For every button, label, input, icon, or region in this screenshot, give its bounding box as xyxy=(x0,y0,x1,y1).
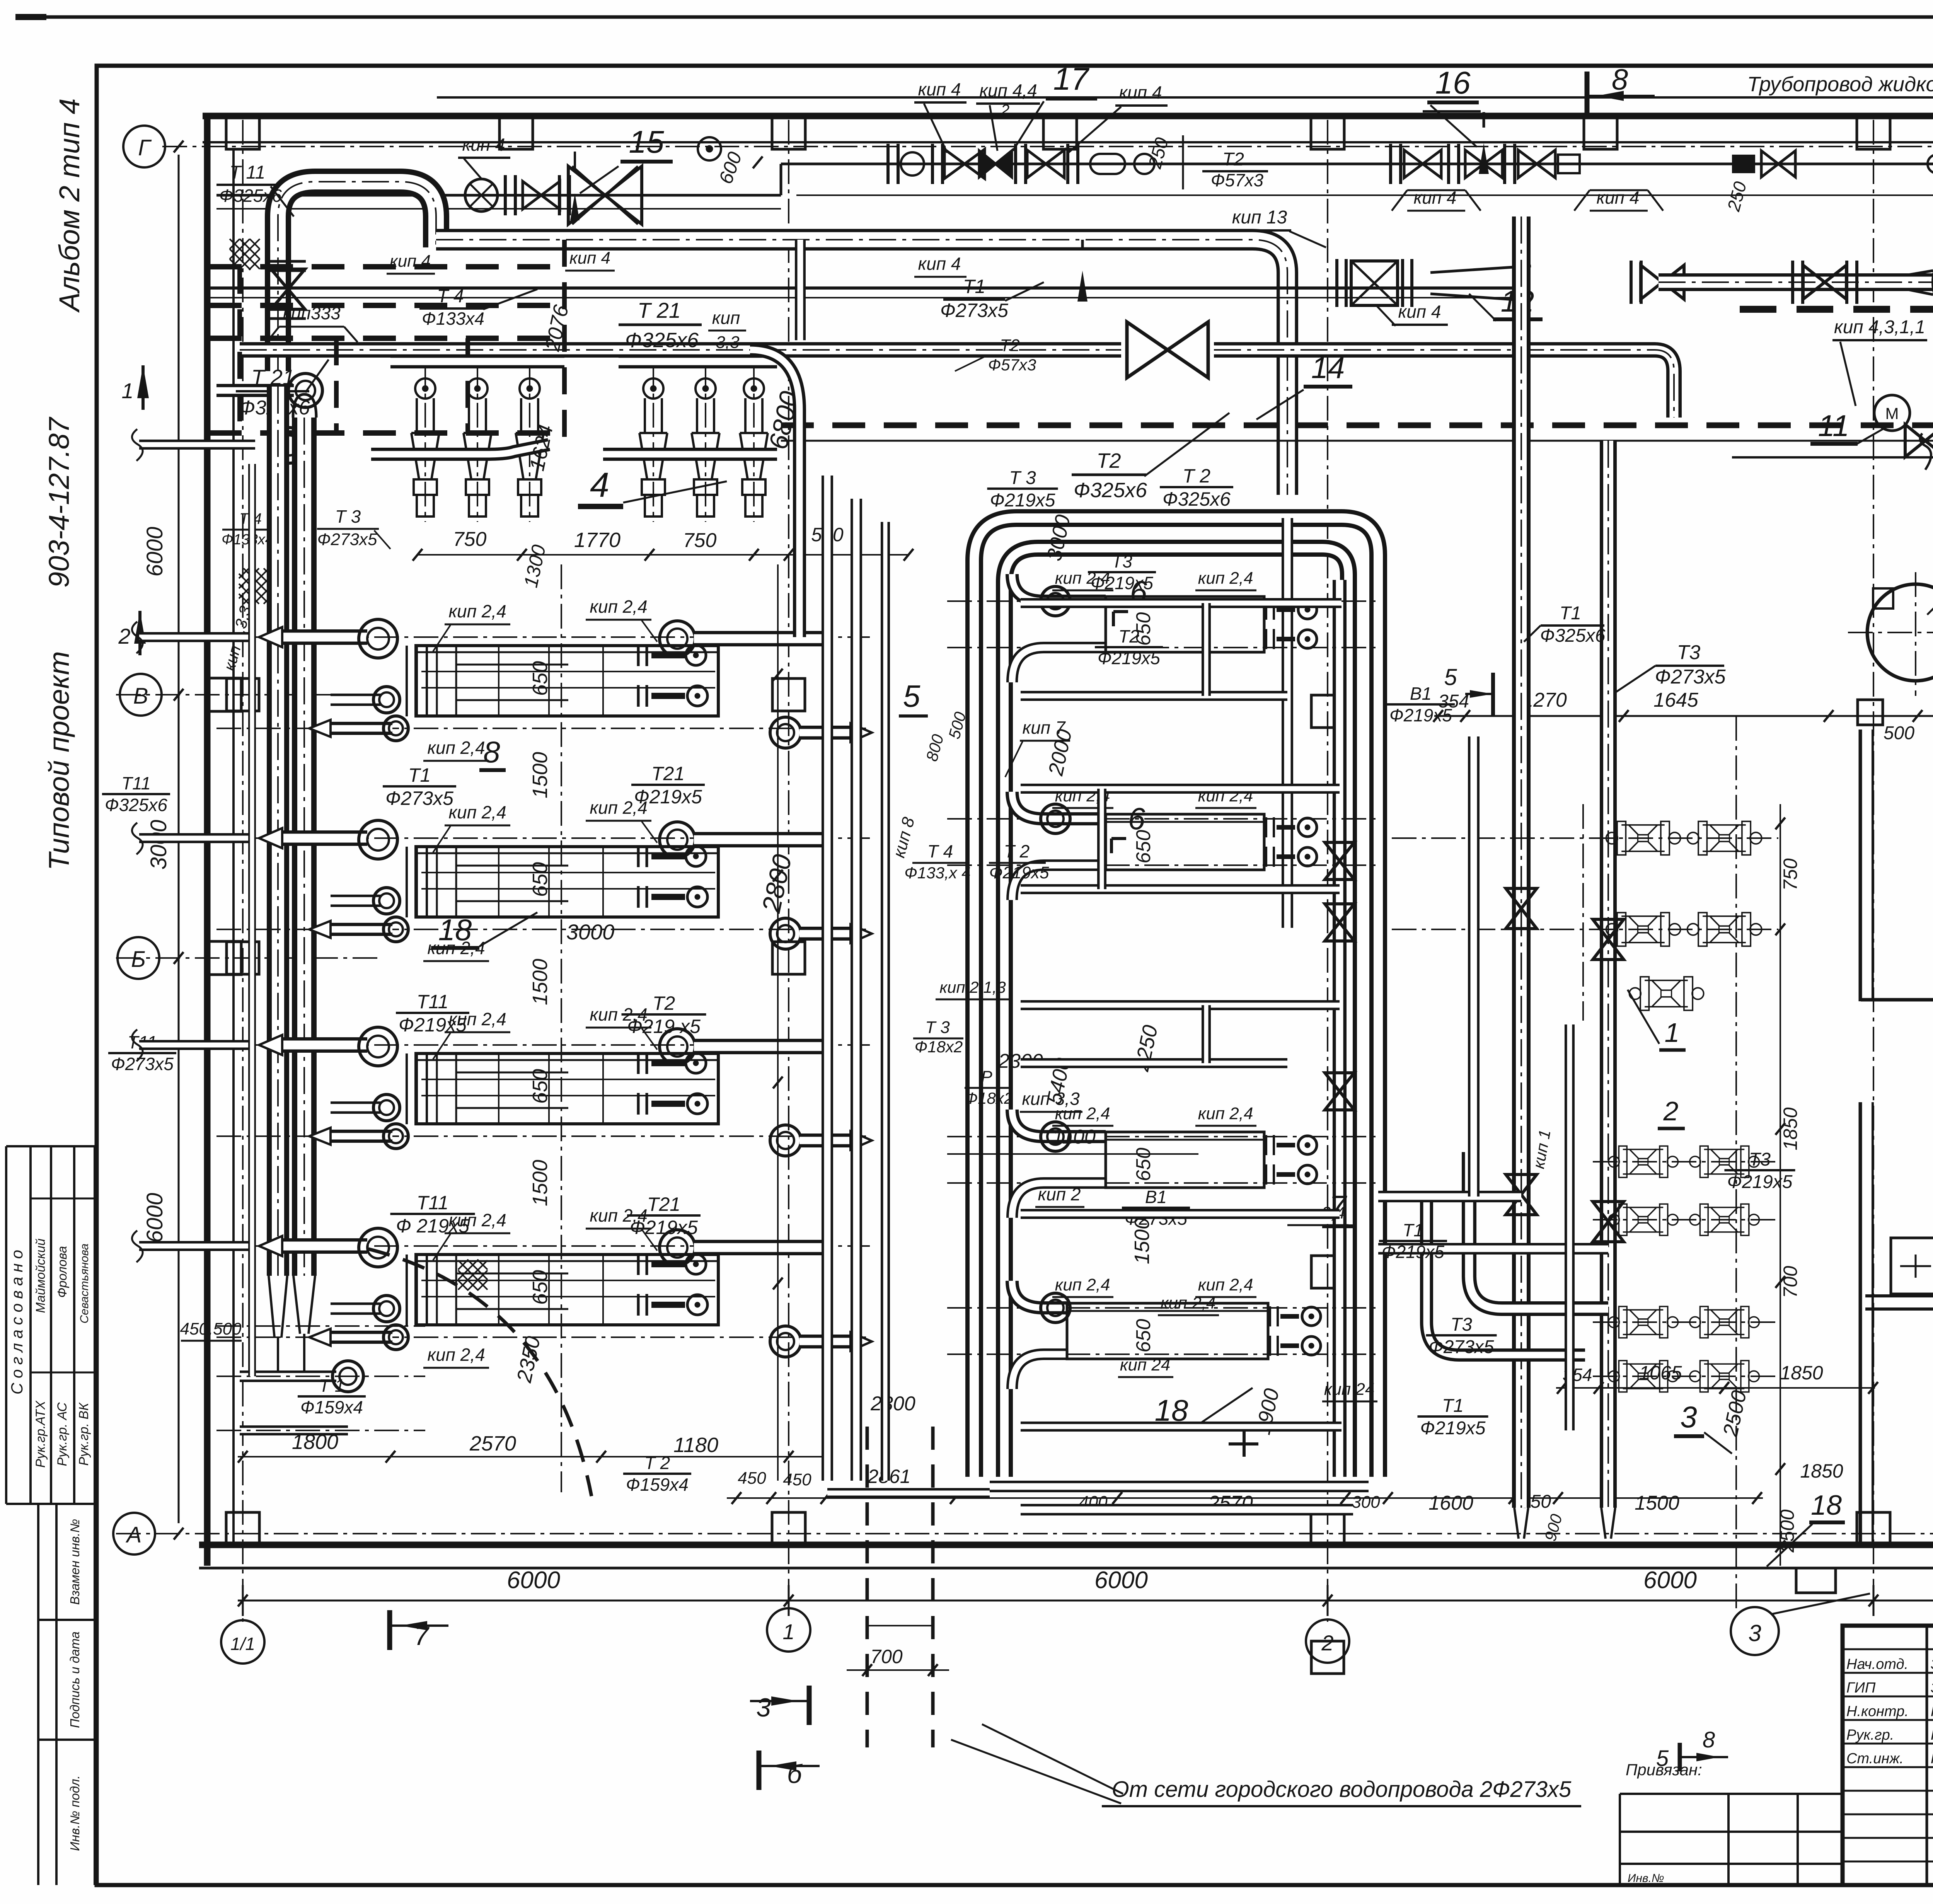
axis circle 1 xyxy=(767,1608,810,1652)
svg-text:4: 4 xyxy=(590,466,609,505)
svg-text:Ф219х5: Ф219х5 xyxy=(1727,1172,1793,1192)
svg-text:Ф219х5: Ф219х5 xyxy=(1389,705,1452,725)
svg-text:Ф273х5: Ф273х5 xyxy=(1429,1337,1494,1357)
run E main right y730 xyxy=(1659,273,1933,291)
svg-text:Ф219х5: Ф219х5 xyxy=(1098,648,1160,668)
svg-text:кип 4: кип 4 xyxy=(1398,302,1441,322)
left elbow donut xyxy=(271,428,307,463)
svg-text:Т3: Т3 xyxy=(1451,1314,1472,1335)
pump unit at 4250,2404 xyxy=(1606,913,1681,946)
svg-text:Ф219х5: Ф219х5 xyxy=(1420,1418,1486,1439)
svg-text:1770: 1770 xyxy=(574,528,620,552)
pump unit at 4310,2570 xyxy=(1630,977,1704,1011)
svg-text:700: 700 xyxy=(870,1646,903,1667)
svg-text:Гринберг: Гринберг xyxy=(1931,1751,1933,1767)
svg-text:Золотов: Золотов xyxy=(1931,1680,1933,1696)
bottom wall columns xyxy=(226,1512,259,1546)
bank dim row xyxy=(418,554,909,556)
svg-text:Фролова: Фролова xyxy=(55,1246,69,1298)
svg-text:Т11: Т11 xyxy=(417,1192,448,1214)
dashed cluster top-left xyxy=(209,264,564,269)
section b bottom xyxy=(757,1751,762,1790)
elbow pipes right-center xyxy=(1469,1152,1608,1309)
svg-text:650: 650 xyxy=(528,661,552,696)
dim row 1800 2570 1180 xyxy=(238,1456,823,1457)
svg-text:Т 1: Т 1 xyxy=(319,1376,344,1396)
svg-text:1: 1 xyxy=(1665,1018,1680,1048)
svg-text:Трубопровод жидкого стекла: Трубопровод жидкого стекла xyxy=(1747,73,1933,96)
dashed T2 run right y800 xyxy=(1740,306,1933,313)
bottoms taper xyxy=(269,1276,315,1376)
axis circle B xyxy=(118,937,159,979)
svg-text:7: 7 xyxy=(414,1621,430,1651)
svg-text:Ф219х5: Ф219х5 xyxy=(630,1217,698,1238)
axis circle 3 xyxy=(1731,1607,1779,1655)
svg-text:Т 11: Т 11 xyxy=(230,162,265,183)
svg-text:ГИП: ГИП xyxy=(1846,1680,1876,1696)
svg-text:Ф273х5: Ф273х5 xyxy=(385,788,453,809)
svg-text:Ст.инж.: Ст.инж. xyxy=(1846,1751,1904,1767)
svg-text:кип 7: кип 7 xyxy=(1023,718,1066,738)
svg-text:Т 4: Т 4 xyxy=(927,841,953,861)
left wall stubs upper xyxy=(216,384,294,397)
svg-text:2: 2 xyxy=(1001,102,1009,119)
extra central vertical pipe xyxy=(881,522,890,1481)
svg-text:1800: 1800 xyxy=(292,1430,338,1454)
top cluster right-mid xyxy=(1391,144,1401,184)
svg-text:2: 2 xyxy=(1321,1631,1333,1655)
svg-text:903-4-127.87: 903-4-127.87 xyxy=(43,416,75,588)
svg-text:450: 450 xyxy=(783,1470,811,1489)
svg-text:3: 3 xyxy=(1680,1400,1697,1434)
svg-text:кип 2,4: кип 2,4 xyxy=(427,1345,485,1365)
svg-text:Ф219х5: Ф219х5 xyxy=(399,1014,467,1036)
top mid valve cluster xyxy=(888,144,898,184)
svg-text:Ф325х6: Ф325х6 xyxy=(105,795,167,815)
svg-text:5: 5 xyxy=(903,679,920,713)
svg-text:кип: кип xyxy=(712,308,740,328)
pump unit at 4250,3155 xyxy=(1609,1204,1678,1235)
see sheet TX-11 note xyxy=(1732,456,1933,459)
svg-text:Т1: Т1 xyxy=(1442,1396,1464,1416)
svg-text:1850: 1850 xyxy=(1800,1460,1843,1482)
pump unit at 4460,2404 xyxy=(1688,913,1762,946)
svg-text:Б: Б xyxy=(131,947,146,972)
top thin pipe left part xyxy=(216,194,781,197)
svg-text:Рук.гр.: Рук.гр. xyxy=(1846,1727,1894,1743)
svg-text:кип 2,4: кип 2,4 xyxy=(1161,1294,1216,1313)
svg-text:Т 21: Т 21 xyxy=(251,365,295,389)
through-wall stub pipes with break marks xyxy=(139,440,255,450)
svg-text:Т1: Т1 xyxy=(408,764,431,786)
svg-text:Ф219х5: Ф219х5 xyxy=(1091,573,1153,593)
top cap V2 xyxy=(293,394,316,418)
svg-text:Ф219х5: Ф219х5 xyxy=(634,786,702,808)
svg-text:3: 3 xyxy=(1748,1620,1761,1646)
svg-text:2300: 2300 xyxy=(870,1393,915,1415)
heater unit at x=1235 xyxy=(477,363,478,522)
water inlet dashed pipes xyxy=(866,1427,869,1747)
svg-text:кип 2,4: кип 2,4 xyxy=(448,802,506,822)
svg-text:кип 24: кип 24 xyxy=(1120,1355,1171,1374)
svg-text:Т3: Т3 xyxy=(1111,551,1132,571)
svg-text:Закоревский: Закоревский xyxy=(1931,1656,1933,1672)
axis circle 2 xyxy=(1306,1619,1349,1663)
svg-text:кип 2: кип 2 xyxy=(1038,1184,1081,1204)
section 7 bottom xyxy=(387,1610,392,1650)
svg-text:Типовой проект: Типовой проект xyxy=(43,651,75,870)
svg-text:300: 300 xyxy=(1352,1493,1380,1512)
svg-text:Т 3: Т 3 xyxy=(925,1018,950,1037)
building bottom wall xyxy=(199,1542,1933,1548)
extra dashed lines top-left cluster xyxy=(209,303,564,308)
pump unit at 4250,3005 xyxy=(1609,1146,1678,1177)
axis lines horizontal xyxy=(162,146,1933,147)
svg-text:Т 3: Т 3 xyxy=(1009,468,1036,488)
heater unit at x=1370 xyxy=(529,363,530,522)
svg-text:Т 3: Т 3 xyxy=(335,506,361,527)
interior columns xyxy=(227,678,259,711)
svg-text:Т2: Т2 xyxy=(1222,149,1244,170)
svg-text:750: 750 xyxy=(683,529,717,552)
pump unit at 4460,3005 xyxy=(1690,1146,1759,1177)
big valve on C xyxy=(1127,322,1208,378)
pump unit at 4460,3155 xyxy=(1690,1204,1759,1235)
svg-text:кип 4: кип 4 xyxy=(918,254,961,274)
svg-text:Ф273х5: Ф273х5 xyxy=(1655,666,1726,688)
heater unit at x=1950 xyxy=(753,363,755,522)
svg-text:Ф133х4: Ф133х4 xyxy=(422,309,484,329)
svg-text:кип 4: кип 4 xyxy=(569,249,610,268)
svg-text:650: 650 xyxy=(1132,1319,1155,1353)
main run T21 top-left fat U xyxy=(278,182,436,371)
hatch patches xyxy=(230,239,260,270)
svg-text:кип 2,1,3: кип 2,1,3 xyxy=(939,978,1006,996)
svg-text:Нач.отд.: Нач.отд. xyxy=(1846,1656,1908,1672)
bottom wall notch xyxy=(1796,1568,1836,1593)
svg-text:Взамен инв.№: Взамен инв.№ xyxy=(68,1519,82,1605)
svg-text:М: М xyxy=(1885,404,1899,423)
svg-text:Ф325х6: Ф325х6 xyxy=(1074,479,1147,502)
pump unit at 4460,2168 xyxy=(1688,822,1762,855)
svg-text:кип 4: кип 4 xyxy=(462,135,505,155)
pump unit at 4250,3420 xyxy=(1609,1306,1678,1338)
loop inner vertical connectors xyxy=(1202,603,1211,696)
svg-text:6000: 6000 xyxy=(1643,1567,1697,1594)
dim line 2000 row xyxy=(1434,715,1933,717)
svg-text:Ф133х4: Ф133х4 xyxy=(222,532,273,548)
svg-text:В: В xyxy=(133,684,148,709)
svg-text:650: 650 xyxy=(528,1069,552,1104)
svg-text:3000: 3000 xyxy=(146,820,171,869)
svg-text:6000: 6000 xyxy=(142,1193,167,1243)
top thin pipe main xyxy=(781,163,1933,165)
svg-text:Т 2: Т 2 xyxy=(644,1453,670,1473)
cabinet small xyxy=(1891,1238,1933,1294)
thin wall-side vertical pipe xyxy=(248,464,256,1376)
svg-text:Ф133,х 4: Ф133,х 4 xyxy=(904,864,970,882)
center exchanger row y=1615 xyxy=(947,600,1376,602)
svg-text:Рук.гр. ВК: Рук.гр. ВК xyxy=(77,1402,91,1466)
svg-text:18: 18 xyxy=(438,913,472,947)
dim row 450 450 2861 ... xyxy=(727,1497,1763,1499)
svg-text:2: 2 xyxy=(1663,1096,1679,1126)
pump unit at 4460,3420 xyxy=(1690,1306,1759,1338)
left margin inventory table xyxy=(38,1504,95,1885)
heat exchanger row at y=2265 xyxy=(216,837,870,839)
lower-left small pipes xyxy=(240,1370,336,1382)
svg-text:1180: 1180 xyxy=(673,1434,718,1457)
heat exchanger row at y=1745 xyxy=(216,636,870,638)
svg-text:Севастьянова: Севастьянова xyxy=(78,1244,91,1324)
pump feed vertical xyxy=(1565,1024,1575,1430)
svg-text:1600: 1600 xyxy=(1428,1492,1473,1514)
svg-text:Т11: Т11 xyxy=(417,991,448,1013)
bank manifold pipes xyxy=(390,355,564,368)
vertical dims right of pumps xyxy=(1780,804,1781,1566)
svg-text:Р: Р xyxy=(981,1067,992,1086)
svg-text:11: 11 xyxy=(1818,409,1849,443)
svg-text:17: 17 xyxy=(1053,61,1090,97)
svg-text:Т1: Т1 xyxy=(1403,1220,1423,1240)
center exchanger row y=3000 xyxy=(947,1136,1376,1137)
building top wall xyxy=(203,113,1933,119)
svg-text:кип 2,4: кип 2,4 xyxy=(427,738,485,758)
svg-text:Коростылёва: Коростылёва xyxy=(1931,1703,1933,1720)
svg-text:Т2: Т2 xyxy=(653,992,675,1014)
svg-text:1100: 1100 xyxy=(1052,1126,1096,1148)
svg-text:Т1: Т1 xyxy=(963,276,985,297)
svg-text:кип 3,3: кип 3,3 xyxy=(1022,1089,1080,1109)
svg-text:кип 4: кип 4 xyxy=(1119,82,1162,102)
svg-text:650: 650 xyxy=(528,862,552,897)
svg-text:Ф18х2: Ф18х2 xyxy=(915,1038,963,1056)
stair wall below xyxy=(1861,998,1933,1002)
svg-text:Г: Г xyxy=(138,135,152,160)
section 3 bottom xyxy=(807,1686,812,1725)
svg-text:6000: 6000 xyxy=(142,527,167,576)
building left wall xyxy=(204,116,211,1566)
svg-text:1500: 1500 xyxy=(528,1160,552,1206)
axis circle V xyxy=(120,674,162,716)
svg-text:Т21: Т21 xyxy=(647,1193,680,1215)
heater unit at x=1690 xyxy=(653,363,654,522)
svg-text:450,500: 450,500 xyxy=(180,1319,242,1338)
svg-text:5: 5 xyxy=(1656,1746,1669,1771)
top wall columns xyxy=(226,117,259,149)
svg-text:Ф325х6: Ф325х6 xyxy=(1163,488,1231,510)
pump unit at 4250,3560 xyxy=(1609,1360,1678,1392)
svg-text:Т11: Т11 xyxy=(121,773,151,793)
top pipe second line xyxy=(796,194,1933,196)
svg-text:кип 2,4: кип 2,4 xyxy=(1198,569,1253,588)
svg-text:Н.контр.: Н.контр. xyxy=(1846,1703,1909,1720)
top-left valve cluster xyxy=(465,179,498,211)
run D dashed y1100 xyxy=(781,423,1933,428)
bottom dimension line xyxy=(238,1600,1933,1602)
svg-text:1500: 1500 xyxy=(1635,1492,1679,1514)
pump unit at 4460,3560 xyxy=(1690,1360,1759,1392)
central loop outer xyxy=(974,518,1378,1477)
big dashed arc xyxy=(367,1249,591,1496)
svg-text:А: А xyxy=(126,1522,142,1548)
svg-text:Подпись и дата: Подпись и дата xyxy=(68,1631,82,1728)
heat exchanger row at y=3320 xyxy=(216,1245,870,1247)
heat exchanger row at y=2800 xyxy=(216,1044,870,1046)
svg-text:16: 16 xyxy=(1435,65,1471,101)
svg-text:750: 750 xyxy=(453,528,487,551)
svg-text:3000: 3000 xyxy=(566,920,615,944)
svg-text:Инв.№: Инв.№ xyxy=(1628,1872,1664,1885)
valves on run E xyxy=(1803,265,1846,299)
svg-text:Альбом 2 тип 4: Альбом 2 тип 4 xyxy=(53,98,85,313)
svg-text:1: 1 xyxy=(782,1619,794,1644)
svg-text:450: 450 xyxy=(738,1469,766,1488)
svg-text:б: б xyxy=(787,1759,803,1789)
svg-text:8: 8 xyxy=(1703,1727,1715,1752)
wall below stairs xyxy=(1859,730,1862,1001)
svg-text:Ф57х3: Ф57х3 xyxy=(1211,170,1264,190)
center exchanger row y=2178 xyxy=(947,818,1376,820)
loop bottom headers xyxy=(990,1481,1369,1492)
svg-text:Ф159х4: Ф159х4 xyxy=(626,1474,689,1495)
svg-text:Т 2: Т 2 xyxy=(1183,465,1210,487)
svg-text:Т2: Т2 xyxy=(1096,449,1121,472)
svg-text:1500: 1500 xyxy=(528,752,552,798)
svg-text:Маймойский: Маймойский xyxy=(33,1239,48,1313)
svg-text:Ф273х5: Ф273х5 xyxy=(111,1054,174,1074)
svg-text:кип 4,3,1,1: кип 4,3,1,1 xyxy=(1834,317,1925,338)
svg-text:750: 750 xyxy=(1780,858,1801,891)
main run A y620 xyxy=(436,240,1287,495)
svg-text:1850: 1850 xyxy=(1780,1362,1823,1384)
section mark 2 left xyxy=(134,611,146,644)
svg-text:6000: 6000 xyxy=(507,1567,560,1594)
svg-text:700: 700 xyxy=(1780,1266,1801,1298)
axis lines vertical xyxy=(242,120,244,1622)
svg-text:8: 8 xyxy=(483,735,500,769)
svg-text:1: 1 xyxy=(121,378,133,403)
coupling 12 xyxy=(1351,261,1398,305)
svg-text:14: 14 xyxy=(1311,351,1345,385)
svg-text:6: 6 xyxy=(1128,801,1145,836)
svg-text:Т2: Т2 xyxy=(1118,626,1139,646)
taper on run E left xyxy=(1430,266,1531,301)
central loop inner xyxy=(1004,548,1348,1477)
svg-text:Ф159х4: Ф159х4 xyxy=(300,1397,363,1417)
svg-text:Ф273х5: Ф273х5 xyxy=(317,530,377,549)
left big vertical pipes xyxy=(267,387,289,1276)
svg-text:кип 2,4: кип 2,4 xyxy=(1198,1104,1253,1123)
svg-text:2: 2 xyxy=(118,624,130,648)
run B thin y745 xyxy=(209,286,1521,290)
svg-text:Ф325х6: Ф325х6 xyxy=(625,329,699,352)
approval table (Soglasovano) xyxy=(6,1146,95,1504)
svg-text:кип 2,4: кип 2,4 xyxy=(448,601,506,621)
svg-text:кип 24: кип 24 xyxy=(1324,1380,1375,1399)
run C y905 xyxy=(240,342,1121,358)
elektroshchitovaya room xyxy=(1859,1102,1862,1545)
svg-text:1645: 1645 xyxy=(1653,689,1699,711)
sheet top trim line xyxy=(15,15,1933,19)
heater unit at x=1100 xyxy=(424,363,426,522)
svg-text:500: 500 xyxy=(1884,723,1914,743)
heater unit at x=1825 xyxy=(705,363,706,522)
svg-text:Ф219х5: Ф219х5 xyxy=(1382,1242,1444,1262)
pump unit at 4250,2168 xyxy=(1606,822,1681,855)
right columns verticals xyxy=(1512,216,1531,1508)
svg-text:650: 650 xyxy=(528,1270,552,1305)
svg-text:Т2: Т2 xyxy=(1000,336,1019,355)
svg-text:Т 2: Т 2 xyxy=(1004,841,1030,861)
svg-text:1850: 1850 xyxy=(1780,1107,1801,1150)
svg-text:кип 2,4: кип 2,4 xyxy=(590,597,647,617)
svg-text:Т1: Т1 xyxy=(1560,603,1581,624)
svg-text:Инв.№ подл.: Инв.№ подл. xyxy=(68,1775,82,1851)
svg-text:8: 8 xyxy=(1612,63,1628,96)
svg-text:18: 18 xyxy=(1811,1490,1842,1521)
svg-text:Коростылёва: Коростылёва xyxy=(1931,1727,1933,1743)
svg-text:Т21: Т21 xyxy=(651,763,685,784)
svg-text:Ф219х5: Ф219х5 xyxy=(989,863,1049,882)
svg-text:Т3: Т3 xyxy=(1677,641,1701,664)
svg-text:5: 5 xyxy=(1444,664,1457,690)
valve on left vertical xyxy=(271,269,305,309)
svg-text:1500: 1500 xyxy=(528,959,552,1005)
central vertical pipes x2140 x2215 xyxy=(822,476,833,1481)
svg-text:Ф 219х5: Ф 219х5 xyxy=(396,1215,469,1237)
svg-text:650: 650 xyxy=(1132,1148,1155,1181)
svg-text:Рук.гр.АТХ: Рук.гр.АТХ xyxy=(33,1400,48,1468)
svg-text:От сети городского водопровода: От сети городского водопровода 2Ф273х5 xyxy=(1112,1777,1572,1802)
svg-text:2570: 2570 xyxy=(469,1432,516,1455)
section 8 top xyxy=(1585,72,1590,116)
section mark 1 left xyxy=(137,365,149,398)
svg-text:кип 2,4: кип 2,4 xyxy=(1198,1275,1253,1294)
svg-text:кип 13: кип 13 xyxy=(1232,207,1287,228)
svg-text:Ф219х5: Ф219х5 xyxy=(990,490,1055,511)
svg-text:В1: В1 xyxy=(1410,684,1432,704)
svg-text:3,3: 3,3 xyxy=(716,333,740,352)
svg-text:1/1: 1/1 xyxy=(230,1634,255,1654)
svg-text:Т 21: Т 21 xyxy=(638,298,681,322)
svg-text:В1: В1 xyxy=(1145,1187,1167,1207)
bottom caps right columns xyxy=(1514,1508,1615,1539)
axis circle G xyxy=(123,126,165,167)
svg-text:Ф273х5: Ф273х5 xyxy=(940,300,1008,321)
svg-text:15: 15 xyxy=(629,124,664,160)
horizontal pipes inside loop xyxy=(1021,598,1342,608)
center exchanger row y=3443 xyxy=(947,1307,1376,1309)
svg-text:Ф325х6: Ф325х6 xyxy=(1540,626,1606,646)
svg-text:Рук.гр. АС: Рук.гр. АС xyxy=(55,1402,70,1466)
left dimension line xyxy=(178,155,180,1523)
tank 9 xyxy=(1867,584,1933,681)
svg-text:6000: 6000 xyxy=(1094,1567,1148,1594)
axis circle A xyxy=(113,1513,155,1555)
svg-text:Ф18х2: Ф18х2 xyxy=(965,1089,1013,1107)
section 5 8 bottom xyxy=(1678,1743,1682,1771)
svg-text:Ф219 х5: Ф219 х5 xyxy=(627,1016,701,1037)
valves on right columns xyxy=(1506,888,1537,929)
svg-text:кип 2,4: кип 2,4 xyxy=(1055,1275,1110,1294)
svg-text:С о г л а с о в а н о: С о г л а с о в а н о xyxy=(8,1250,26,1394)
filled valve xyxy=(1732,155,1755,173)
svg-text:Ф57х3: Ф57х3 xyxy=(988,356,1036,374)
left wall columns xyxy=(208,678,241,711)
M motor lower xyxy=(1874,395,1910,431)
axis circle 1/1 xyxy=(221,1620,264,1664)
